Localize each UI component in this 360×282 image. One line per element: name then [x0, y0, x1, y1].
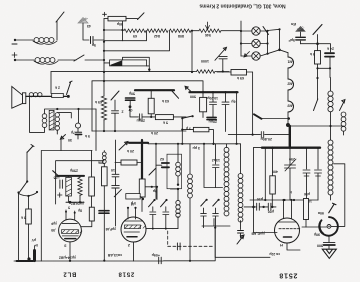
gramophone terminal Gr — [129, 105, 132, 108]
heavy corner at bottom-left bus — [17, 260, 34, 262]
choke L1 — [16, 39, 33, 41]
coil M3 — [288, 101, 294, 112]
capacitor C2 5uF — [296, 37, 306, 40]
tube H — [275, 218, 300, 243]
antenna symbol — [78, 18, 88, 24]
lamp output wires — [260, 31, 267, 57]
vertical line from 65k box down — [252, 72, 254, 135]
capacitor C1 — [94, 39, 104, 41]
enclosure corner lines — [56, 161, 104, 204]
trimmer — [112, 186, 122, 197]
switch S8 — [172, 91, 179, 98]
junction blob — [286, 123, 290, 127]
wire tube2 right — [146, 228, 178, 230]
resistor R17 — [139, 179, 145, 197]
switch S7 — [111, 91, 119, 100]
resistor R10 5k — [155, 115, 173, 120]
resistor R12 — [193, 127, 209, 131]
coil M1 — [288, 57, 294, 68]
bottom bus — [14, 260, 163, 262]
right HF section verticals — [272, 148, 274, 176]
switch S3 — [126, 18, 138, 20]
caps above tube2 — [150, 207, 156, 229]
variable capacitor 250 — [285, 148, 296, 200]
switch lever S4 — [263, 27, 269, 35]
resistor R11 vertical — [200, 97, 207, 111]
switch S9 — [182, 116, 192, 118]
lamp bus vertical — [240, 21, 242, 56]
switch lever in output box — [53, 171, 59, 176]
long coil right — [330, 126, 332, 140]
switch S5 — [313, 25, 322, 35]
grid area: bold bar and pot — [190, 91, 238, 93]
wire x41 — [41, 151, 92, 262]
capacitor C9 — [222, 92, 229, 131]
terminal circle — [76, 123, 81, 128]
capacitor C17 — [268, 203, 271, 210]
wire taps — [104, 31, 147, 41]
IF coils center — [226, 144, 228, 148]
output transformer T1 — [42, 114, 47, 128]
capacitor C5 — [112, 100, 119, 131]
switch levers — [149, 200, 167, 207]
wire — [301, 44, 331, 52]
wire — [104, 21, 123, 41]
junction bar under divider — [66, 201, 84, 203]
lamp 3 — [241, 55, 252, 57]
capacitor at tube2 right — [201, 208, 230, 228]
wire antenna down — [83, 23, 89, 40]
speaker — [12, 87, 23, 109]
capacitor C15 500 — [328, 236, 330, 242]
coil M stack vertical — [287, 53, 289, 57]
pot 20k — [119, 142, 128, 151]
switch — [149, 169, 156, 176]
bold wire — [135, 89, 174, 91]
switch S1 — [56, 12, 64, 22]
resistor R15 — [102, 167, 108, 186]
wire detector column — [254, 148, 278, 233]
switch S6 — [67, 81, 73, 94]
wire y126 — [288, 125, 331, 127]
bus corner down to R8 — [50, 72, 52, 94]
coil L3 — [330, 78, 332, 92]
tube V1 output — [59, 219, 82, 242]
coil L4 — [341, 112, 346, 131]
wire to grid resistor column — [95, 109, 97, 151]
resistor R4 — [170, 29, 191, 32]
lamp 2 — [241, 43, 252, 45]
switch bold lever — [254, 114, 262, 119]
bus y81 — [92, 81, 203, 92]
antenna earth triangle — [295, 26, 306, 32]
resistor R1 box — [104, 18, 108, 20]
resistor R14 — [26, 209, 32, 224]
IF coil B — [240, 144, 242, 174]
RF choke coil right — [317, 68, 319, 99]
ground arrow — [328, 246, 330, 249]
transformer wires — [30, 96, 97, 132]
bold bus — [262, 146, 320, 148]
coil L5 beads — [177, 189, 179, 229]
left side wires — [26, 152, 28, 182]
arrow indicator — [237, 235, 244, 244]
coil small — [103, 151, 105, 153]
trimmer capacitor — [219, 56, 227, 71]
capacitor C12 — [303, 148, 310, 200]
IF coil A — [189, 144, 191, 174]
switch S11 — [340, 100, 346, 111]
left column resistor 65k vertical — [91, 81, 93, 131]
wire y200 — [250, 199, 318, 201]
resistor R2 — [124, 29, 146, 32]
resistor R19 vertical — [89, 207, 94, 221]
wire — [264, 148, 266, 200]
resistor hatched in box — [68, 176, 70, 202]
tap arrow — [57, 130, 65, 139]
bus y131 — [92, 130, 186, 132]
fuse small — [33, 251, 36, 261]
wiper arrow — [244, 52, 250, 58]
capacitor in box — [60, 180, 63, 188]
wire — [268, 29, 289, 53]
terminal plus — [14, 59, 16, 61]
resistor R6 65k — [231, 70, 247, 76]
bold vertical — [141, 140, 143, 180]
resistor R9 63k vertical — [148, 98, 154, 114]
wire y144.5 — [148, 143, 241, 145]
main bus left vertical — [103, 19, 105, 131]
switch lever on meter — [329, 203, 336, 213]
middle column resistors above tube2 — [91, 151, 93, 178]
wire y187.5 — [204, 144, 223, 188]
switch S10 — [314, 99, 318, 111]
rheostat wedge — [104, 62, 110, 64]
resistor R3 — [147, 29, 168, 32]
resistor R20 box above tube V2 — [126, 194, 140, 199]
capacitor C18 in dashed path — [177, 243, 180, 250]
cap black — [99, 211, 109, 214]
terminal minus — [14, 39, 16, 41]
resistor R18 vertical near meter — [304, 199, 309, 220]
switch S2 — [58, 59, 76, 61]
resistor R16 — [121, 160, 137, 165]
tube V2 — [121, 217, 146, 242]
resistor zigzag in box — [79, 176, 81, 202]
capacitor C13 — [315, 148, 322, 200]
dashed line — [168, 245, 213, 247]
IF transformer can outline — [167, 154, 182, 189]
wire — [56, 21, 58, 40]
lamp 1 — [241, 30, 252, 32]
bus y72 — [51, 71, 194, 73]
capacitor C4 7uF — [75, 131, 81, 133]
capacitor C8 — [210, 92, 217, 117]
meter / pickup circle — [319, 217, 338, 236]
speaker wire coil — [26, 95, 69, 97]
wire y135 with cap 20-80 — [228, 134, 288, 136]
coil M2 — [288, 79, 294, 90]
bold feed bar — [57, 175, 84, 177]
resistor R7 5k — [315, 51, 321, 64]
capacitor C7 20u — [130, 108, 155, 120]
capacitor C11 20uu black — [207, 117, 216, 119]
capacitor C16 — [257, 203, 260, 210]
potentiometer P1 546 — [191, 30, 199, 32]
choke L2 — [16, 59, 34, 61]
capacitor C14 — [213, 144, 220, 188]
